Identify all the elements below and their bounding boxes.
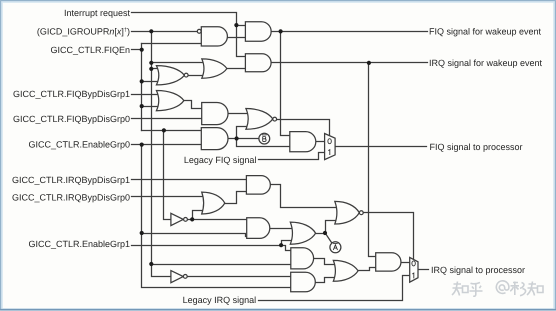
svg-text:FIQ signal for wakeup event: FIQ signal for wakeup event <box>429 27 542 37</box>
wire AND3 out IRQ wakeup <box>272 62 428 64</box>
svg-text:Legacy IRQ signal: Legacy IRQ signal <box>183 295 257 305</box>
wire AND10 out to OR8 <box>314 259 339 265</box>
wire GICD_IGROUPR input <box>132 31 198 33</box>
wire IRQBypDisGrp0 input <box>132 196 207 198</box>
and-gate G19 IRQ-to-mux <box>376 253 401 271</box>
wire OR4 out <box>184 101 202 109</box>
and-gate G10 FIQ-to-mux <box>290 132 316 152</box>
label mux M2 1 <box>412 273 414 278</box>
wire EnableGrp1 input <box>132 245 282 247</box>
label mux M1 0 <box>328 139 331 144</box>
svg-text:(GICD_IGROUPRn[x]†): (GICD_IGROUPRn[x]†) <box>37 26 130 36</box>
wire IGROUPR vertical bus <box>152 32 171 277</box>
svg-text:GICC_CTLR.FIQBypDisGrp0: GICC_CTLR.FIQBypDisGrp0 <box>13 114 130 124</box>
wire IRQ wakeup down to AND12 <box>369 63 376 257</box>
wire AND9 out <box>271 228 296 230</box>
wire EnableGrp0 vertical <box>142 145 291 288</box>
wire EnableGrp0 to AND9 <box>142 234 247 237</box>
svg-text:IRQ signal to processor: IRQ signal to processor <box>431 265 525 275</box>
node A letter <box>333 245 337 250</box>
wire EnableGrp0 input <box>132 144 202 146</box>
wire MUX2 out IRQ to processor <box>419 269 429 271</box>
wire interrupt to AND2 top <box>237 25 246 27</box>
wire FIQEn to AND6 <box>142 130 202 132</box>
wire FIQEn to NOR1 <box>142 81 161 83</box>
mux M1 <box>325 134 336 160</box>
wire IRQBypDisGrp1 input <box>132 179 247 181</box>
and-gate G17 <box>291 272 316 292</box>
wire OR6 out to node A <box>316 233 326 235</box>
wire AND2 out FIQ wakeup <box>272 31 428 33</box>
wire Legacy FIQ signal <box>259 153 326 160</box>
watermark zhihu <box>452 281 543 296</box>
wire Interrupt request <box>132 13 246 57</box>
wire FIQEn vertical <box>141 44 143 131</box>
svg-text:GICC_CTLR.IRQBypDisGrp1: GICC_CTLR.IRQBypDisGrp1 <box>12 175 130 185</box>
svg-text:IRQ signal for wakeup event: IRQ signal for wakeup event <box>429 58 543 68</box>
or-gate G14 <box>290 222 315 244</box>
svg-text:Legacy FIQ signal: Legacy FIQ signal <box>184 155 257 165</box>
wire IGROUPR to OR2 <box>152 62 206 64</box>
wire AND1 out <box>228 37 246 39</box>
wire FIQ wakeup down to AND7 <box>281 32 290 136</box>
wire inverter U1 out <box>188 219 248 221</box>
wire OR2 out <box>227 68 246 70</box>
svg-text:GICC_CTLR.IRQBypDisGrp0: GICC_CTLR.IRQBypDisGrp0 <box>12 193 130 203</box>
connector circle A <box>330 242 341 253</box>
and-gate G7 <box>202 103 228 125</box>
wire AND8 out to NOR7 <box>271 185 339 208</box>
wire NOR1 out <box>188 75 206 77</box>
or-gate G12 <box>202 192 225 214</box>
wire U1 out to OR5 <box>193 211 207 220</box>
mux M2 <box>410 257 418 282</box>
and-gate G13 <box>247 218 270 239</box>
wire AND11 out to OR8 <box>316 278 339 283</box>
label mux M1 1 <box>328 150 330 155</box>
wire NOR7 out to mux M2 select <box>362 213 414 260</box>
and-gate G2 FIQ wakeup <box>245 22 271 42</box>
wire node B down to AND7 <box>237 139 290 147</box>
wire NOR6 out to mux M1 select <box>277 120 330 136</box>
connector circle B <box>259 133 270 144</box>
or-gate G18 <box>333 260 358 281</box>
wire node A up to NOR7 <box>326 221 340 234</box>
and-gate G16 <box>291 248 314 269</box>
wire AND5 out <box>229 113 248 115</box>
nor-gate G5 <box>156 66 184 85</box>
svg-text:Interrupt request: Interrupt request <box>64 8 131 18</box>
svg-text:GICC_CTLR.EnableGrp1: GICC_CTLR.EnableGrp1 <box>28 239 130 249</box>
wire node A leader to circle A <box>326 234 332 243</box>
nor-gate G8 <box>246 109 273 130</box>
wire AND7 out <box>316 141 326 143</box>
wire Legacy IRQ signal <box>259 276 411 301</box>
nor-gate G15 <box>335 201 360 224</box>
svg-text:GICC_CTLR.EnableGrp0: GICC_CTLR.EnableGrp0 <box>28 139 130 149</box>
wire FIQEn input <box>132 49 142 51</box>
inverter U1 <box>171 213 183 225</box>
wire OR5 out to AND8 <box>225 192 247 204</box>
and-gate G11 IRQByp <box>246 176 270 195</box>
wire EnableGrp1 to OR6 <box>282 241 296 246</box>
or-gate G4 <box>202 59 227 78</box>
svg-text:GICC_CTLR.FIQBypDisGrp1: GICC_CTLR.FIQBypDisGrp1 <box>13 89 130 99</box>
mux select digits <box>328 139 415 279</box>
svg-text:GICC_CTLR.FIQEn: GICC_CTLR.FIQEn <box>50 45 130 55</box>
wire FIQBypDisGrp0 input <box>132 118 202 120</box>
wire AND6 out to node B <box>229 138 259 140</box>
svg-text:FIQ signal to processor: FIQ signal to processor <box>430 142 523 152</box>
wire EnableGrp1 to AND10 <box>282 246 291 251</box>
and-gate G9 FIQEn-EnableGrp0 <box>201 128 228 150</box>
wire FIQEn to AND1 <box>142 43 202 45</box>
wire MUX1 out FIQ to processor <box>336 146 427 148</box>
node B letter <box>262 135 338 250</box>
wire OR8 out to AND12 <box>359 268 376 271</box>
wire inverter U2 out to AND11 <box>188 276 291 278</box>
wire node B up to NOR6 <box>237 127 248 139</box>
wire FIQEn down to inverter U1 <box>164 131 171 220</box>
and-gate G1 group-FIQEn <box>201 27 227 46</box>
label mux M2 0 <box>412 261 415 266</box>
inverter U2 <box>171 271 183 283</box>
and-gate G3 IRQ wakeup <box>245 54 271 72</box>
or-gate G6 <box>156 91 184 111</box>
wire FIQEn to OR4 <box>142 106 161 108</box>
wire FIQBypDisGrp1 input <box>132 94 162 96</box>
wire IGROUPR to AND10 <box>152 264 291 266</box>
wire IGROUPR to NOR1 <box>152 68 161 70</box>
wire AND12 out <box>401 262 411 264</box>
